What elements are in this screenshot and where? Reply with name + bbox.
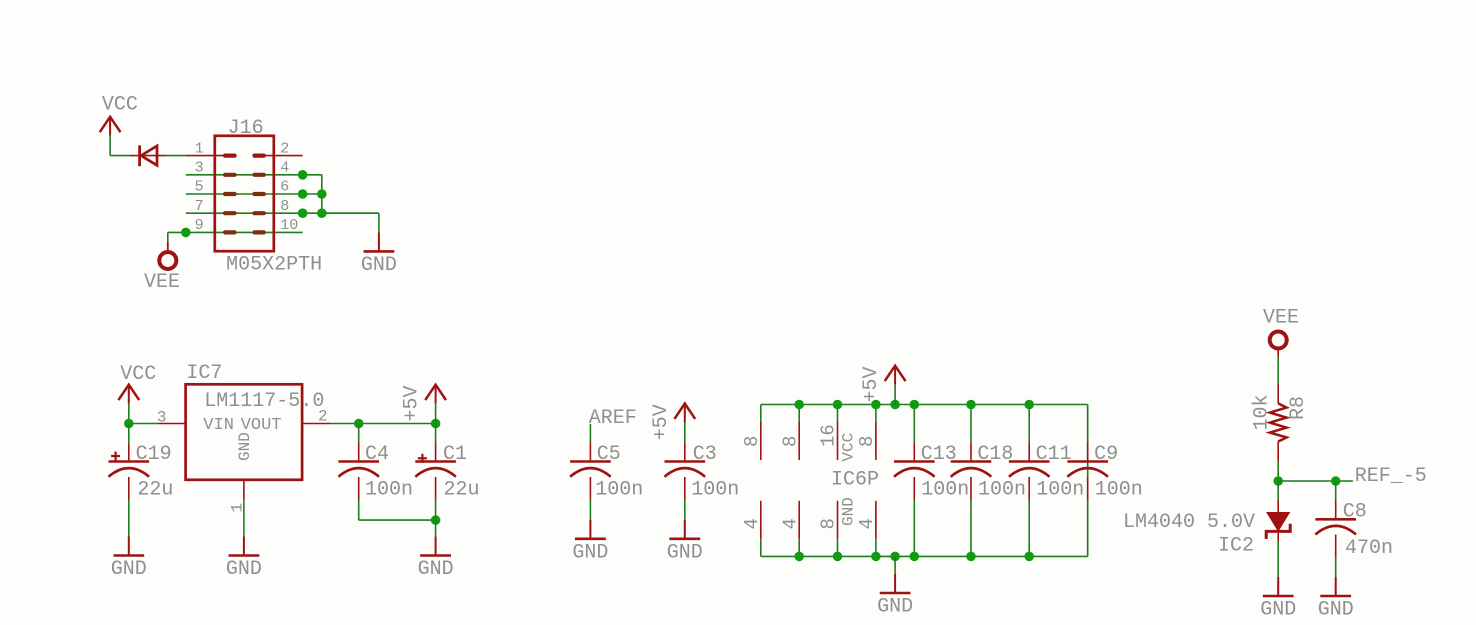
svg-text:VCC: VCC [102, 94, 138, 117]
svg-text:AREF: AREF [589, 407, 637, 430]
svg-text:GND: GND [236, 432, 254, 461]
label C18 [977, 443, 1013, 466]
svg-text:GND: GND [1260, 599, 1296, 622]
pin number 8 (IC6P top, x=760.8) [741, 436, 763, 447]
svg-text:C4: C4 [365, 443, 389, 466]
junction C18 top [966, 400, 976, 410]
svg-text:4: 4 [280, 160, 289, 177]
junction bottom rail x=837.5 [833, 552, 843, 562]
svg-text:J16: J16 [228, 117, 264, 140]
junction GND bottom [890, 552, 900, 562]
svg-text:VCC: VCC [120, 363, 156, 386]
junction pin4 [298, 170, 308, 180]
junction C13 bottom [910, 552, 920, 562]
svg-text:22u: 22u [137, 478, 173, 501]
junction bottom rail x=799.2 [794, 552, 804, 562]
value 470n (C8) [1345, 537, 1393, 560]
svg-text:100n: 100n [691, 478, 739, 501]
svg-text:R8: R8 [1287, 396, 1310, 420]
wire VOUT to +5V rail [331, 423, 436, 425]
wire IC7 pin1 to GND [243, 499, 245, 537]
capacitor C1 [415, 454, 456, 477]
svg-text:22u: 22u [444, 478, 480, 501]
label C5 [597, 443, 621, 466]
junction pin8 [298, 208, 308, 218]
svg-text:IC6P: IC6P [831, 469, 879, 492]
junction top rail x=837.5 [833, 400, 843, 410]
svg-text:100n: 100n [365, 478, 413, 501]
wire row pins 7-8 to GND [186, 212, 379, 214]
ground GND (J16) [361, 232, 397, 277]
svg-text:8: 8 [856, 436, 878, 447]
pin number 1 (rotated) [229, 503, 247, 513]
power flag +5V (C3) [650, 404, 695, 443]
svg-text:C1: C1 [443, 443, 467, 466]
pin name VOUT [241, 416, 282, 435]
svg-text:C18: C18 [977, 443, 1013, 466]
svg-text:10k: 10k [1250, 394, 1273, 430]
capacitor C19 leads [128, 424, 130, 537]
label J16 [228, 117, 264, 140]
value 100n (C18) [978, 478, 1026, 501]
wire row pins 5-6 [186, 193, 322, 195]
capacitor C11 [1009, 462, 1050, 477]
capacitor C8 leads [1335, 481, 1337, 577]
pin name GND (IC6P) [840, 497, 858, 526]
diode D1 (series protection) [129, 145, 166, 166]
label C9 [1094, 443, 1118, 466]
svg-text:M05X2PTH: M05X2PTH [226, 253, 322, 276]
label C4 [365, 443, 389, 466]
svg-text:C9: C9 [1094, 443, 1118, 466]
value 10k (R8, rotated) [1250, 394, 1273, 430]
svg-text:C11: C11 [1036, 443, 1072, 466]
svg-text:8: 8 [779, 436, 801, 447]
svg-text:GND: GND [418, 558, 454, 581]
svg-text:2: 2 [318, 408, 328, 426]
net label REF_-5 [1355, 465, 1427, 488]
svg-text:IC2: IC2 [1218, 535, 1254, 558]
label R8 (rotated) [1287, 396, 1310, 420]
wire IC6P right edge [1087, 405, 1089, 557]
power flag VCC (J16 input) [100, 94, 138, 156]
pin number 8 (IC6P bottom, x=837.5) [818, 518, 840, 529]
svg-text:LM4040 5.0V: LM4040 5.0V [1123, 511, 1255, 534]
svg-text:8: 8 [818, 518, 840, 529]
svg-text:VEE: VEE [144, 271, 180, 294]
svg-text:VEE: VEE [1263, 307, 1299, 330]
wire bus pin4 to pin8 [303, 175, 322, 213]
power flag +5V (IC7 output) [401, 385, 446, 424]
ground GND (C19) [111, 537, 147, 582]
svg-text:3: 3 [157, 409, 167, 427]
pin number 4 (IC6P bottom, x=760.8) [741, 518, 763, 529]
svg-text:REF_-5: REF_-5 [1355, 465, 1427, 488]
svg-text:GND: GND [111, 558, 147, 581]
wire row pins 3-4 [186, 174, 303, 176]
label C3 [693, 443, 717, 466]
zener diode IC2 (LM4040) [1266, 513, 1290, 539]
label C19 [136, 443, 172, 466]
svg-text:7: 7 [195, 198, 204, 215]
ground GND (C8) [1318, 577, 1354, 622]
svg-text:VIN: VIN [203, 416, 234, 435]
capacitor C18 [951, 462, 992, 477]
wire R8 to node REF [1277, 462, 1279, 481]
svg-text:GND: GND [572, 541, 608, 564]
supply VEE (J16) [144, 242, 180, 294]
junction top rail x=799.2 [794, 400, 804, 410]
svg-text:9: 9 [195, 217, 204, 234]
capacitor C18 leads [970, 405, 972, 557]
svg-text:LM1117-5.0: LM1117-5.0 [204, 390, 324, 413]
svg-text:C3: C3 [693, 443, 717, 466]
svg-text:470n: 470n [1345, 537, 1393, 560]
svg-text:100n: 100n [595, 478, 643, 501]
value 100n (C9) [1095, 478, 1143, 501]
wire VCC to diode anode [110, 155, 129, 157]
pin number 8 (IC6P top, x=875.9) [856, 436, 878, 447]
junction C1 ground [431, 515, 441, 525]
label C11 [1036, 443, 1072, 466]
pin number 4 (IC6P bottom, x=799.2) [779, 518, 801, 529]
capacitor C5 [570, 462, 611, 477]
pin number 8 (IC6P top, x=799.2) [779, 436, 801, 447]
svg-text:IC7: IC7 [186, 362, 222, 385]
capacitor C4 [338, 462, 379, 477]
svg-text:GND: GND [877, 596, 913, 619]
svg-text:100n: 100n [1095, 478, 1143, 501]
junction C4-C1 rail [431, 419, 441, 429]
junction pin6 [298, 189, 308, 199]
junction C11 top [1024, 400, 1034, 410]
svg-text:VCC: VCC [840, 433, 858, 462]
ground GND (IC6P) [877, 574, 913, 619]
capacitor C3 leads [684, 442, 686, 520]
label IC2 [1218, 535, 1254, 558]
power flag VCC (IC7 input) [118, 363, 156, 424]
wire pin8 to GND drop [322, 213, 379, 232]
value 22u (C19) [137, 478, 173, 501]
svg-text:C19: C19 [136, 443, 172, 466]
pin number 4 (IC6P bottom, x=875.9) [856, 518, 878, 529]
pin name VIN [203, 416, 234, 435]
junction C8 top [1331, 476, 1341, 486]
junction C13 top [910, 400, 920, 410]
label M05X2PTH [226, 253, 322, 276]
junction bus-pin6 [317, 189, 327, 199]
svg-text:100n: 100n [978, 478, 1026, 501]
wire IC6P bottom rail [761, 555, 1088, 557]
pin number 16 (IC6P top, x=837.5) [818, 424, 840, 447]
svg-text:GND: GND [667, 541, 703, 564]
capacitor C8 [1315, 519, 1356, 534]
wire VEE to R8 [1277, 357, 1279, 384]
wire VCC to VIN [129, 423, 157, 425]
value 22u (C1) [444, 478, 480, 501]
label IC6P [831, 469, 879, 492]
capacitor C5 leads [589, 442, 591, 520]
svg-text:3: 3 [195, 160, 204, 177]
svg-text:5: 5 [195, 179, 204, 196]
capacitor C11 leads [1028, 405, 1030, 557]
value 100n (C5) [595, 478, 643, 501]
junction C11 bottom [1024, 552, 1034, 562]
junction bottom rail x=875.9 [871, 552, 881, 562]
svg-text:GND: GND [840, 497, 858, 526]
svg-text:GND: GND [361, 254, 397, 277]
svg-text:GND: GND [226, 558, 262, 581]
svg-text:+5V: +5V [650, 404, 673, 440]
svg-text:100n: 100n [921, 478, 969, 501]
svg-text:1: 1 [195, 140, 204, 157]
resistor R8 [1270, 383, 1287, 461]
junction R8-IC2 [1273, 476, 1283, 486]
svg-text:VOUT: VOUT [241, 416, 282, 435]
net label AREF [589, 407, 637, 430]
connector J16 body and pins [186, 136, 303, 251]
capacitor C9 leads [1087, 405, 1089, 557]
ground GND (C1) [418, 537, 454, 582]
capacitor C13 [894, 462, 935, 477]
svg-text:4: 4 [779, 518, 801, 529]
capacitor C4 leads [358, 424, 360, 521]
svg-text:16: 16 [818, 424, 840, 447]
svg-text:4: 4 [856, 518, 878, 529]
capacitor C19 [109, 452, 150, 477]
svg-text:100n: 100n [1036, 478, 1084, 501]
svg-text:+5V: +5V [401, 385, 424, 421]
capacitor C13 leads [913, 405, 915, 557]
label C1 [443, 443, 467, 466]
svg-text:2: 2 [280, 140, 289, 157]
capacitor C3 [665, 462, 706, 477]
wire diode to J16 pin 1 [166, 155, 186, 157]
IC6P power gate pins [761, 405, 876, 557]
pin number 2 [318, 408, 328, 426]
ground GND (IC7) [226, 537, 262, 582]
label C8 [1343, 500, 1367, 523]
ground GND (C3) [667, 520, 703, 565]
wire GND drop (IC6P) [894, 556, 896, 574]
ground GND (C5) [572, 520, 608, 565]
pin number 3 [157, 409, 167, 427]
wire AREF stub [589, 424, 591, 442]
label IC7 [186, 362, 222, 385]
supply VEE (reference) [1263, 307, 1299, 357]
junction VCC-C19 [124, 419, 134, 429]
svg-text:GND: GND [1318, 599, 1354, 622]
value 100n (C4) [365, 478, 413, 501]
ground GND (IC2) [1260, 577, 1296, 622]
svg-text:6: 6 [280, 179, 289, 196]
value 100n (C13) [921, 478, 969, 501]
label LM1117-5.0 [204, 390, 324, 413]
label LM4040 5.0V [1123, 511, 1255, 534]
junction bus-pin8 [317, 208, 327, 218]
wire IC6P top rail [761, 404, 1088, 406]
zener diode IC2 leads [1277, 481, 1279, 578]
power flag +5V (IC6P) [860, 366, 905, 405]
junction C18 bottom [966, 552, 976, 562]
value 100n (C3) [691, 478, 739, 501]
junction +5V top [890, 400, 900, 410]
junction top rail x=875.9 [871, 400, 881, 410]
wire row pins 9-10 from VEE [168, 232, 303, 242]
regulator IC7 body [157, 384, 331, 499]
pin name VCC (IC6P) [840, 433, 858, 462]
wire node to C8 and label [1278, 480, 1353, 482]
svg-text:4: 4 [741, 518, 763, 529]
svg-text:C8: C8 [1343, 500, 1367, 523]
capacitor C9 [1067, 462, 1108, 477]
svg-text:+5V: +5V [860, 366, 883, 402]
junction pin9-VEE [181, 228, 191, 238]
junction VOUT-C4 [354, 419, 364, 429]
wire C4 to C1 ground link [359, 519, 436, 521]
svg-text:8: 8 [280, 198, 289, 215]
label C13 [921, 443, 957, 466]
pin name GND (rotated) [236, 432, 254, 461]
svg-text:C5: C5 [597, 443, 621, 466]
capacitor C1 leads [435, 424, 437, 537]
svg-text:8: 8 [741, 436, 763, 447]
svg-text:10: 10 [280, 217, 298, 234]
value 100n (C11) [1036, 478, 1084, 501]
